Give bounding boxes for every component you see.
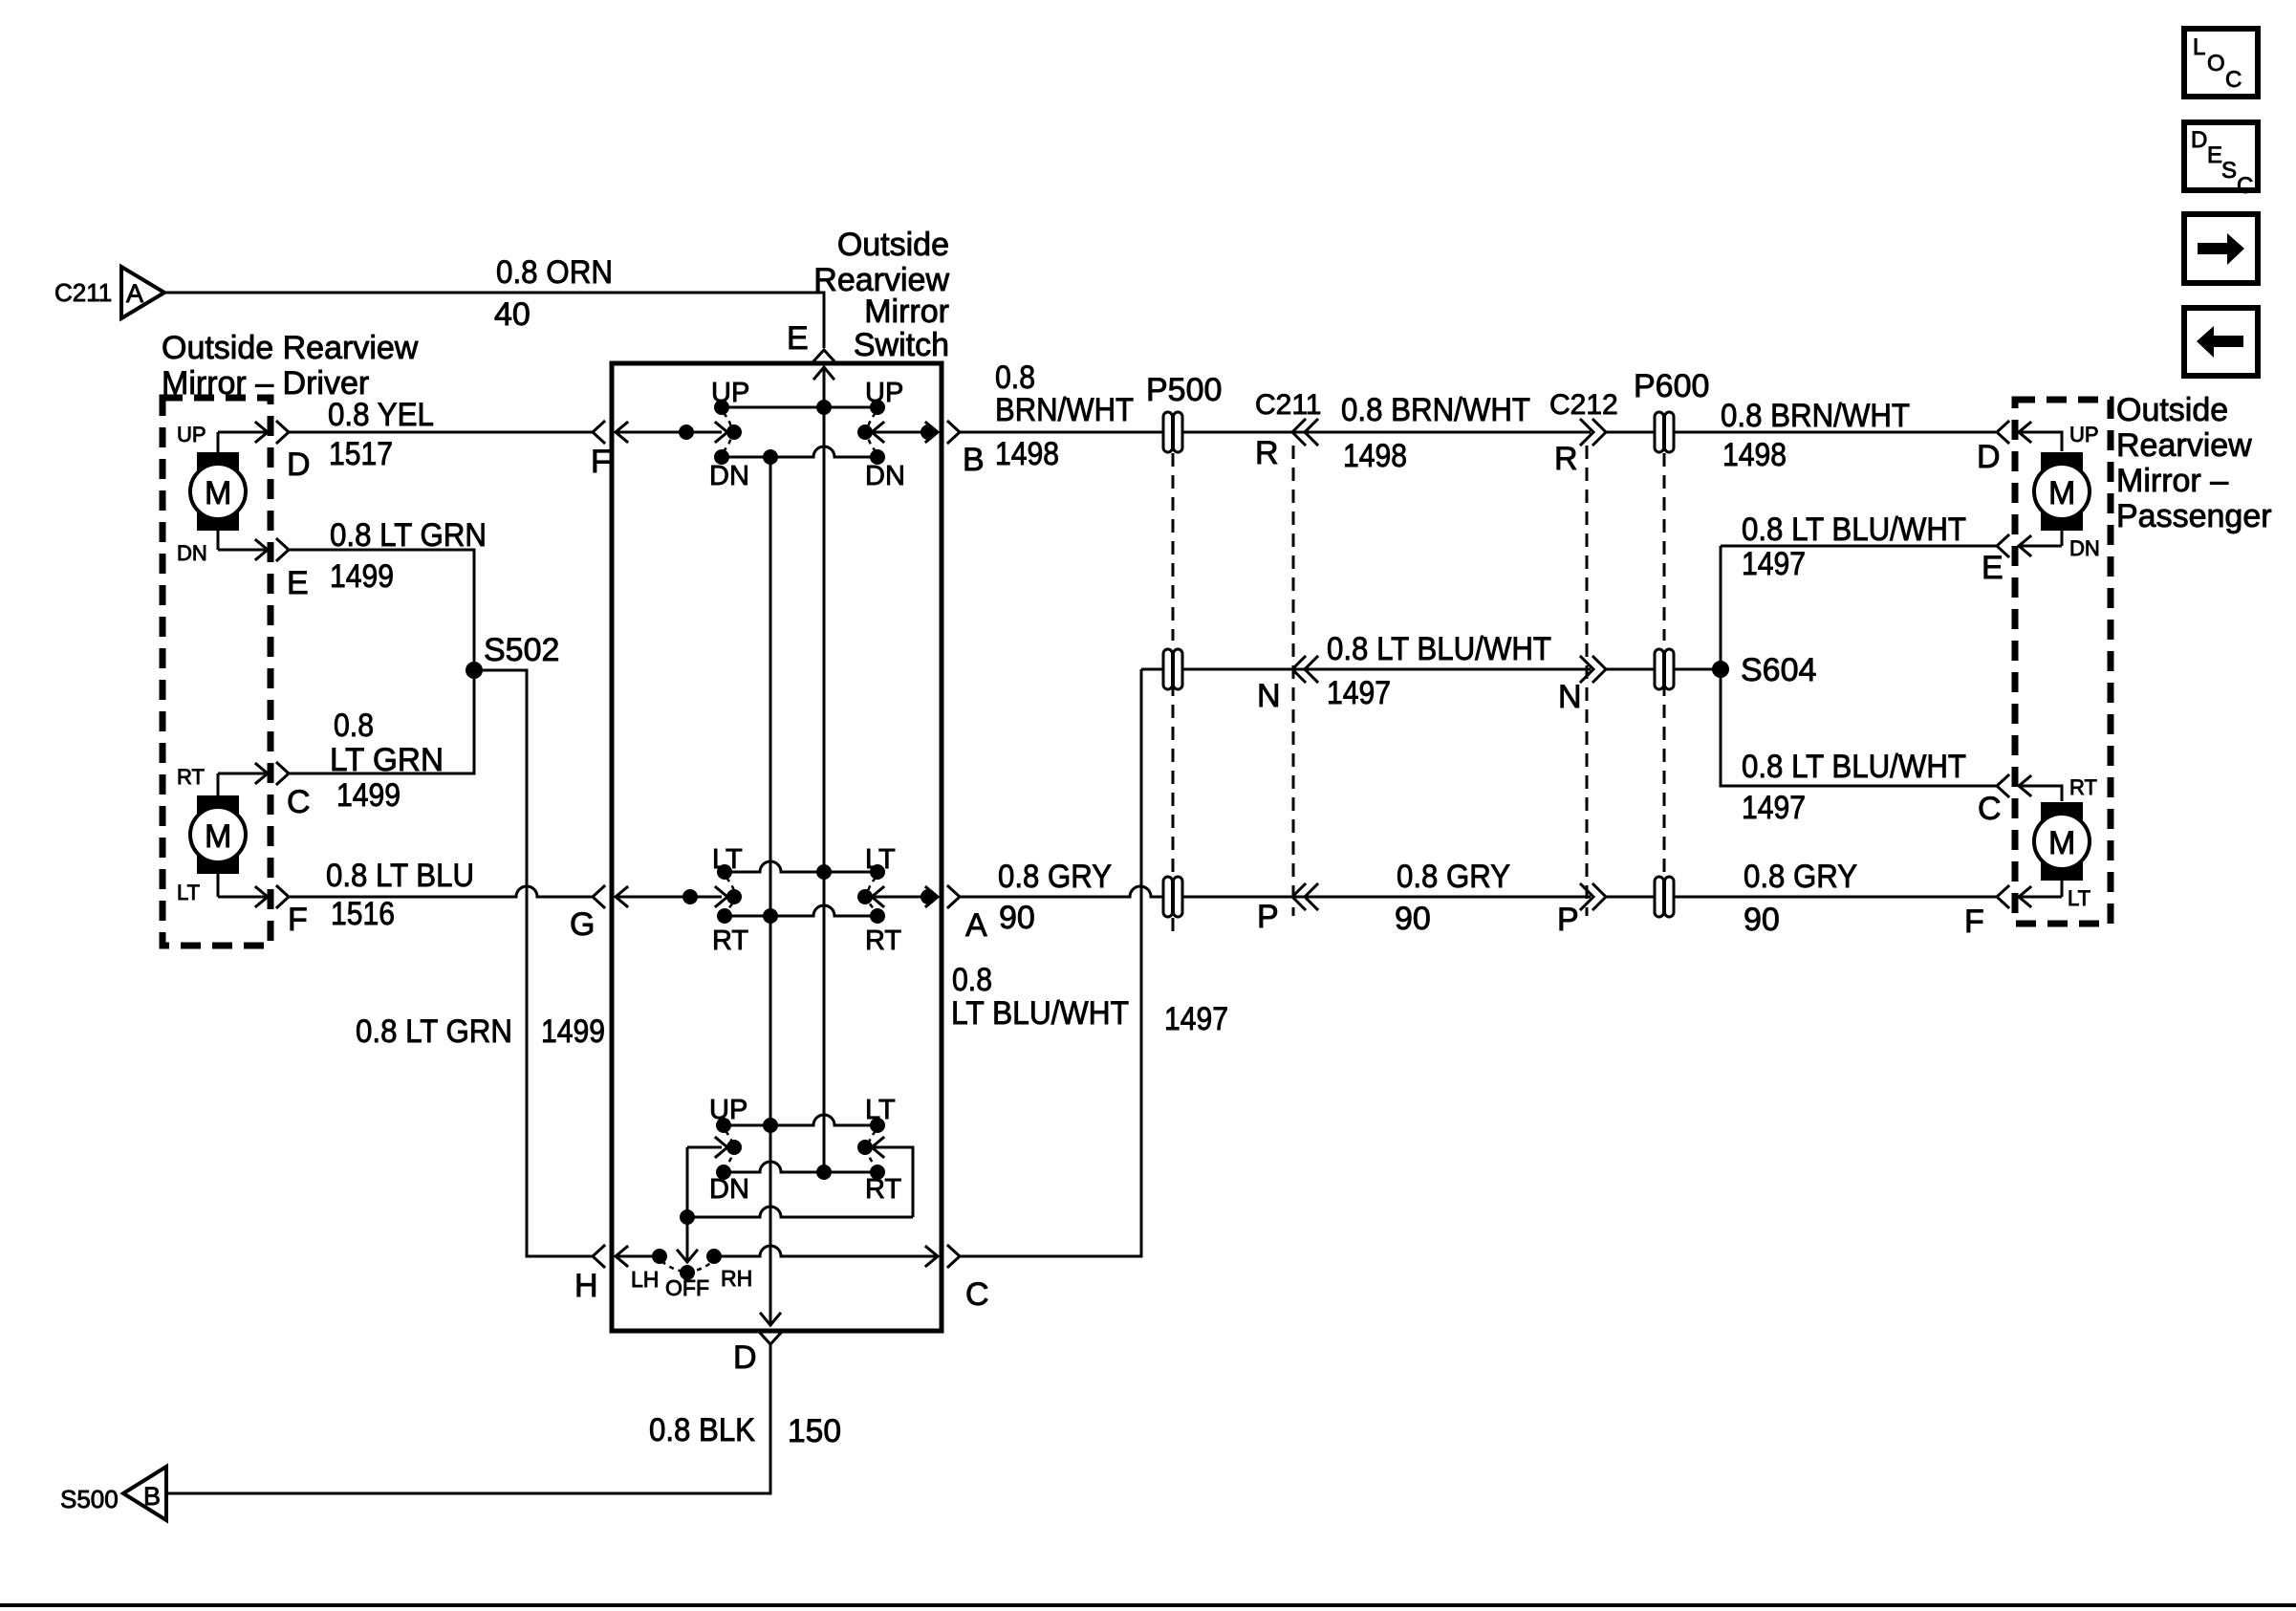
svg-text:LT: LT	[2068, 886, 2090, 910]
motor M passenger up/down	[2034, 452, 2090, 546]
wire 0.8 BLK 150 from switch D to S500	[166, 1344, 841, 1493]
svg-text:0.8 LT GRN: 0.8 LT GRN	[356, 1013, 512, 1050]
svg-text:C: C	[287, 784, 311, 820]
svg-text:1499: 1499	[330, 558, 394, 595]
svg-text:1499: 1499	[541, 1013, 605, 1050]
svg-text:1497: 1497	[1327, 675, 1391, 711]
svg-text:A: A	[126, 279, 143, 308]
svg-text:DN: DN	[177, 541, 207, 565]
svg-text:P: P	[1257, 899, 1279, 935]
svg-text:0.8 GRY: 0.8 GRY	[1397, 859, 1510, 895]
switch OFF feed arrow down	[678, 1217, 697, 1262]
svg-text:OFF: OFF	[665, 1275, 709, 1300]
label 0.8 LT GRN 1499 (pin C wire)	[330, 708, 444, 814]
svg-text:C211: C211	[54, 278, 112, 307]
wire 0.8 BRN/WHT 1498 from C211 to C212	[1292, 392, 1591, 474]
svg-text:Outside Rearview: Outside Rearview	[162, 330, 419, 366]
wire BRN/WHT from C212 to P600	[1606, 431, 1654, 434]
connector C212 in-line (row P) double chevron	[1557, 884, 1606, 938]
svg-text:LT GRN: LT GRN	[330, 742, 444, 778]
switch section 2 RT contact line (hops E wire)	[717, 905, 885, 924]
svg-text:0.8 BLK: 0.8 BLK	[649, 1412, 755, 1448]
svg-text:0.8 YEL: 0.8 YEL	[328, 397, 434, 433]
svg-text:0.8: 0.8	[952, 962, 992, 998]
svg-text:UP: UP	[865, 378, 903, 408]
svg-text:0.8 BRN/WHT: 0.8 BRN/WHT	[1721, 398, 1910, 434]
svg-text:Outside: Outside	[2116, 392, 2228, 428]
wire 0.8 GRY 90 from P600 to passenger F	[1675, 859, 1997, 938]
wire driver RT pin C internal	[218, 764, 268, 783]
motor M driver left/right	[190, 773, 246, 897]
svg-text:UP: UP	[177, 423, 206, 446]
svg-text:S: S	[2221, 158, 2237, 184]
wire 0.8 GRY 90 from switch A to P500 (hops riser)	[960, 859, 1162, 936]
svg-text:E: E	[1982, 550, 2004, 586]
wire 0.8 ORN 40 from C211:A to switch pin E	[164, 254, 824, 348]
svg-text:D: D	[2191, 127, 2207, 153]
motor M driver up/down	[190, 432, 246, 550]
legend box DESC	[2184, 122, 2258, 199]
connector C212 in-line (row R) double chevron	[1549, 389, 1618, 477]
connector C211 in-line (row P) double chevron	[1257, 884, 1317, 935]
svg-text:150: 150	[788, 1413, 841, 1449]
connector P600 pass-through (row P)	[1655, 877, 1674, 917]
svg-text:C: C	[2237, 173, 2253, 199]
pin D arrow into passenger mirror	[2018, 423, 2062, 451]
svg-text:S500: S500	[60, 1485, 119, 1513]
svg-text:G: G	[570, 906, 595, 943]
svg-text:M: M	[205, 475, 231, 512]
svg-text:1497: 1497	[1742, 790, 1806, 826]
pin D bracket (driver)	[277, 422, 289, 443]
pin F bracket (passenger)	[1997, 886, 2008, 907]
pin F bracket (driver)	[277, 886, 289, 907]
svg-text:LT: LT	[865, 1095, 896, 1125]
driver mirror dashed box	[162, 398, 271, 946]
svg-text:LT BLU/WHT: LT BLU/WHT	[951, 995, 1129, 1032]
svg-text:M: M	[205, 818, 231, 855]
svg-text:E: E	[287, 565, 309, 601]
wire 0.8 LT BLU 1516 from driver F to switch G (hops over LT GRN wire)	[289, 858, 593, 932]
labels LH OFF RH	[631, 1266, 752, 1300]
svg-text:RT: RT	[2069, 775, 2097, 799]
svg-text:0.8 GRY: 0.8 GRY	[998, 859, 1112, 895]
svg-text:B: B	[143, 1482, 161, 1511]
svg-text:1498: 1498	[995, 436, 1059, 472]
splice S500 ground triangle with pin B	[60, 1467, 166, 1520]
wire 0.8 YEL 1517 from driver D to switch F	[289, 397, 593, 472]
switch section 2 wiper dashed arcs	[726, 878, 735, 910]
wire GRY P500 to C211	[1183, 896, 1292, 899]
switch section 3 top contact line UP/LT (hops E wire)	[716, 1115, 885, 1133]
svg-text:0.8 LT BLU: 0.8 LT BLU	[326, 858, 474, 894]
connector P500 pass-through (row P)	[1163, 877, 1182, 917]
legend box arrow right	[2184, 214, 2258, 283]
svg-text:LH: LH	[631, 1267, 659, 1292]
svg-text:Outside: Outside	[837, 227, 949, 263]
pin F bracket (switch)	[593, 422, 604, 443]
svg-text:1517: 1517	[329, 436, 393, 472]
svg-text:90: 90	[999, 900, 1035, 936]
legend box LOC	[2184, 29, 2258, 97]
connector C211 in-line (row N) double chevron	[1257, 657, 1317, 714]
svg-text:D: D	[733, 1339, 757, 1376]
svg-text:BRN/WHT: BRN/WHT	[995, 392, 1134, 428]
svg-text:UP: UP	[709, 1095, 747, 1125]
pin G bracket (switch)	[593, 886, 604, 907]
wire N row P500 to C211	[1183, 668, 1292, 671]
svg-text:F: F	[1964, 903, 1984, 940]
svg-text:E: E	[2207, 142, 2222, 168]
svg-text:Rearview: Rearview	[2116, 427, 2252, 464]
svg-text:M: M	[2048, 475, 2075, 512]
pin D arrow inside switch bottom	[761, 1314, 780, 1325]
pin E bracket (passenger)	[1997, 535, 2008, 556]
switch section 3 bottom contact line DN/RT (hops D wire)	[716, 1162, 885, 1180]
svg-text:P500: P500	[1146, 372, 1222, 408]
connector C211 source triangle with pin A	[54, 267, 164, 318]
connector P500 dashed line	[1172, 453, 1175, 939]
pin F arrow into passenger mirror	[2018, 887, 2062, 906]
switch mode row LH OFF RH from pin H	[615, 1246, 938, 1280]
svg-text:Switch: Switch	[854, 327, 949, 363]
svg-text:0.8 ORN: 0.8 ORN	[496, 254, 613, 291]
legend box arrow left	[2184, 308, 2258, 376]
svg-text:M: M	[2048, 825, 2075, 861]
switch section 1 feed from pin F	[615, 423, 742, 442]
svg-text:40: 40	[494, 296, 531, 333]
svg-text:E: E	[787, 320, 809, 357]
svg-text:90: 90	[1744, 902, 1780, 938]
wire 0.8 LT GRN 1499 from splice S502 down to driver pin C	[289, 670, 474, 773]
svg-text:L: L	[2193, 34, 2205, 60]
switch section 2 LT contact line (hops D wire)	[717, 861, 885, 880]
svg-text:0.8 BRN/WHT: 0.8 BRN/WHT	[1341, 392, 1530, 428]
svg-text:0.8: 0.8	[995, 359, 1035, 396]
svg-text:1497: 1497	[1164, 1001, 1228, 1037]
svg-text:LT: LT	[865, 844, 896, 875]
connector C212 dashed line	[1586, 446, 1589, 916]
svg-text:S604: S604	[1741, 652, 1816, 688]
bottom page border line	[0, 1603, 2296, 1607]
svg-text:B: B	[963, 442, 985, 478]
svg-text:R: R	[1255, 435, 1279, 471]
switch section 2 right wiper to pin A	[857, 887, 938, 906]
switch section 1 UP contact line	[714, 400, 885, 415]
pin D bracket (passenger)	[1997, 422, 2008, 443]
wire BRN/WHT from P500 to C211	[1183, 431, 1292, 434]
svg-text:RT: RT	[712, 925, 748, 956]
label Outside Rearview Mirror - Driver	[162, 330, 419, 402]
pin E bracket at switch top	[813, 350, 834, 361]
pin E bracket (driver)	[277, 539, 289, 560]
pin C bracket (passenger)	[1997, 775, 2008, 796]
switch section 1 DN contact line (hops E wire)	[714, 446, 885, 465]
wire driver LT pin F internal	[218, 887, 268, 906]
wire 0.8 LT BLU/WHT 1497 from switch C up to N row	[951, 669, 1228, 1256]
svg-text:Mirror: Mirror	[864, 294, 949, 330]
connector P600 pass-through (row B)	[1634, 368, 1709, 452]
wire 0.8 BRN/WHT 1498 from switch B to P500	[960, 359, 1162, 472]
svg-text:D: D	[1977, 439, 2001, 475]
svg-text:0.8 LT GRN: 0.8 LT GRN	[330, 517, 487, 554]
switch section 3 right wiper riser	[857, 1138, 913, 1217]
labels LT LT RT RT (switch section 2)	[712, 844, 901, 956]
pin A bracket (switch)	[948, 886, 960, 907]
pin E arrow into passenger mirror	[2018, 536, 2062, 555]
connector C212 in-line (row N) double chevron	[1558, 657, 1606, 715]
svg-text:D: D	[287, 446, 311, 483]
wire N row C212 to P600	[1606, 668, 1654, 671]
svg-text:DN: DN	[709, 1174, 749, 1205]
svg-text:0.8: 0.8	[334, 708, 374, 744]
label Outside Rearview Mirror - Passenger	[2116, 392, 2272, 534]
pin H bracket (switch)	[593, 1246, 604, 1267]
pin C bracket (driver)	[277, 763, 289, 784]
connector C211 in-line (row R) double chevron	[1255, 389, 1322, 471]
svg-text:RT: RT	[865, 1174, 901, 1205]
wire 0.8 BRN/WHT 1498 from P600 to passenger D	[1675, 398, 1997, 473]
switch section 1 right wiper to pin B	[857, 423, 938, 442]
switch OFF wiper dashed arc	[661, 1261, 713, 1272]
svg-text:1498: 1498	[1343, 438, 1407, 474]
svg-text:DN: DN	[709, 461, 749, 491]
svg-text:RH: RH	[721, 1266, 752, 1291]
wire GRY C212 to P600	[1606, 896, 1654, 899]
svg-text:C212: C212	[1549, 389, 1618, 421]
connector P500 pass-through (row N)	[1163, 649, 1182, 689]
pin E arrow into switch	[814, 367, 834, 407]
wire 0.8 LT GRN 1499 from splice S502 down to switch pin H	[356, 670, 605, 1256]
svg-text:UP: UP	[711, 378, 749, 408]
svg-text:F: F	[591, 444, 611, 480]
svg-text:H: H	[574, 1268, 598, 1304]
pin C bracket (switch)	[948, 1246, 960, 1267]
passenger mirror dashed box	[2015, 400, 2111, 924]
svg-text:O: O	[2207, 51, 2225, 76]
svg-text:C: C	[2225, 67, 2242, 93]
wire N row P600 to splice S604	[1675, 668, 1721, 671]
svg-text:LT: LT	[712, 844, 743, 875]
label Outside Rearview Mirror Switch	[813, 227, 949, 363]
svg-text:UP: UP	[2069, 423, 2099, 446]
svg-text:Passenger: Passenger	[2116, 498, 2272, 534]
svg-text:S502: S502	[484, 632, 559, 668]
svg-text:P600: P600	[1634, 368, 1709, 404]
connector C211 dashed line	[1292, 446, 1295, 916]
wire 0.8 LT GRN 1499 from driver E to splice S502	[289, 517, 487, 670]
pin C arrow into passenger mirror	[2018, 776, 2062, 801]
switch section 3 common bus (hops D wire)	[680, 1207, 913, 1225]
svg-text:RT: RT	[865, 925, 901, 956]
wire 0.8 GRY 90 from C211 to C212 (row P)	[1292, 859, 1591, 937]
wire driver DN pin E internal	[218, 540, 268, 559]
svg-text:RT: RT	[177, 765, 205, 789]
svg-text:1516: 1516	[331, 896, 395, 932]
svg-text:0.8 LT BLU/WHT: 0.8 LT BLU/WHT	[1742, 749, 1966, 785]
svg-text:N: N	[1257, 678, 1281, 714]
switch section 2 feed from pin G	[615, 887, 742, 906]
wire N row from switch C riser to P500	[1141, 668, 1162, 671]
pin B bracket (switch)	[948, 422, 960, 443]
svg-text:0.8 GRY: 0.8 GRY	[1744, 859, 1857, 895]
switch internal vertical wire from pin E	[823, 380, 826, 1172]
motor M passenger left/right	[2034, 802, 2090, 897]
svg-text:LT: LT	[177, 881, 200, 904]
labels UP UP DN DN (switch section 1)	[709, 378, 905, 491]
pin D bracket (switch bottom)	[760, 1333, 781, 1344]
svg-text:C: C	[1978, 791, 2002, 827]
svg-text:1497: 1497	[1742, 546, 1806, 582]
switch section 3 wiper dashed arcs	[726, 1131, 733, 1166]
svg-text:0.8 LT BLU/WHT: 0.8 LT BLU/WHT	[1742, 512, 1966, 548]
svg-text:F: F	[288, 902, 308, 938]
svg-text:DN: DN	[2069, 536, 2100, 560]
svg-text:1499: 1499	[336, 777, 401, 814]
svg-text:N: N	[1558, 679, 1582, 715]
switch section 3 feed left riser	[687, 1138, 742, 1217]
labels UP LT DN RT (switch section 3)	[709, 1095, 901, 1205]
svg-text:A: A	[965, 907, 987, 944]
svg-text:R: R	[1554, 441, 1578, 477]
switch section 1 wiper dashed arcs	[724, 413, 732, 451]
connector P600 pass-through (row N)	[1655, 649, 1674, 689]
switch box Outside Rearview Mirror Switch	[612, 363, 942, 1331]
wire 0.8 LT BLU/WHT 1497 from C211 to C212 (row N)	[1292, 631, 1591, 711]
splice S502	[466, 632, 559, 679]
wire 0.8 LT BLU/WHT 1497 from S604 down to passenger C	[1721, 669, 1997, 826]
svg-text:90: 90	[1395, 901, 1431, 937]
svg-text:1498: 1498	[1722, 437, 1787, 473]
wire 0.8 LT BLU/WHT 1497 from S604 up to passenger E	[1721, 512, 1997, 669]
svg-text:C211: C211	[1255, 389, 1322, 421]
splice S604	[1712, 652, 1816, 688]
connector P500 pass-through (row B)	[1146, 372, 1222, 452]
wire driver UP pin D internal	[218, 423, 268, 442]
connector P600 dashed line	[1663, 453, 1666, 876]
svg-text:Mirror –: Mirror –	[2116, 463, 2228, 499]
svg-text:DN: DN	[865, 461, 905, 491]
svg-text:C: C	[965, 1276, 989, 1313]
svg-text:P: P	[1557, 902, 1579, 938]
svg-text:0.8 LT BLU/WHT: 0.8 LT BLU/WHT	[1327, 631, 1551, 667]
switch internal vertical wire to pin D	[769, 457, 772, 1326]
